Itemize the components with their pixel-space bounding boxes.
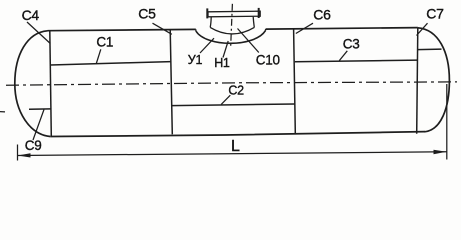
leader line U1: [200, 38, 214, 53]
svg-text:С2: С2: [228, 83, 244, 97]
saddle pad right edge: [265, 29, 267, 31]
weld seam C1 (longitudinal, left course): [51, 62, 171, 65]
weld seam C3 (longitudinal, right course): [295, 60, 418, 62]
svg-text:С6: С6: [313, 6, 331, 22]
leader line C2: [221, 95, 230, 104]
leader line H1: [223, 41, 228, 58]
manhole flange plate: [208, 11, 260, 17]
dimension extension line right: [446, 84, 448, 160]
saddle pad left edge: [195, 29, 197, 31]
leader line C6: [296, 23, 313, 33]
manhole saddle reinforcing pad (outer arc): [196, 31, 266, 44]
stray mark left edge: [0, 111, 5, 113]
leader line C5: [153, 23, 172, 34]
svg-text:С3: С3: [343, 36, 360, 51]
shell top line left segment: [48, 29, 196, 30]
tank centerline (dash-dot axis): [6, 82, 457, 85]
dimension arrow right: [434, 150, 447, 155]
svg-text:С9: С9: [25, 138, 42, 153]
right head (elliptical end): [418, 28, 450, 132]
leader line C1: [96, 49, 101, 63]
dimension arrow left: [18, 153, 31, 157]
manhole neck bottom arc: [210, 27, 254, 34]
dimension extension line left: [17, 145, 19, 161]
weld seam C4 (left head to shell joint): [50, 31, 52, 137]
svg-text:С7: С7: [426, 6, 444, 22]
svg-text:С4: С4: [22, 7, 40, 23]
left head (elliptical end): [15, 31, 50, 137]
weld seam C2 (longitudinal, middle course): [172, 104, 295, 106]
flange bolt right: [258, 8, 260, 18]
svg-text:С10: С10: [256, 52, 280, 67]
leader line C7: [417, 23, 428, 35]
shell top line right segment: [266, 28, 418, 30]
svg-text:L: L: [231, 138, 240, 155]
svg-text:С1: С1: [96, 35, 113, 50]
weld seam C5 (shell ring joint): [170, 30, 172, 135]
weld seam on right head: [418, 48, 442, 51]
manhole neck left side: [210, 17, 211, 28]
manhole neck right side: [253, 17, 254, 28]
svg-text:Н1: Н1: [214, 56, 230, 70]
svg-text:У1: У1: [188, 53, 203, 67]
leader line C10: [238, 29, 259, 53]
weld seam C7 (right head to shell joint): [417, 28, 418, 134]
leader line C9: [33, 110, 44, 141]
leader line C3: [339, 51, 347, 61]
manhole vertical centerline: [231, 4, 233, 49]
weld seam C9 (on left head): [29, 108, 51, 110]
svg-text:С5: С5: [138, 6, 156, 22]
flange bolt left: [206, 8, 208, 18]
leader line C4: [27, 22, 50, 44]
shell bottom line: [50, 132, 425, 137]
weld seam C6 (shell ring joint): [294, 29, 296, 133]
dimension line L: [18, 152, 447, 156]
